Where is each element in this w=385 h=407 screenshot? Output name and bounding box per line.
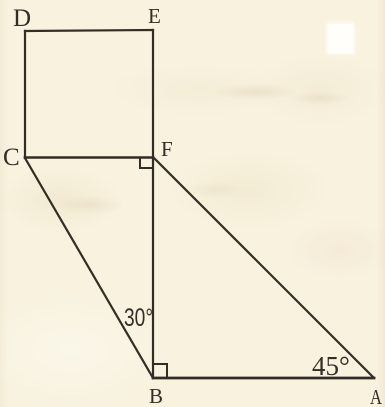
svg-text:E: E: [148, 4, 161, 28]
svg-text:B: B: [149, 384, 163, 407]
white patch: [328, 24, 353, 53]
wire BA: [153, 377, 374, 380]
svg-text:45°: 45°: [312, 351, 350, 381]
right angle at F: [140, 158, 152, 168]
right angle at B: [153, 364, 167, 378]
wire CB: [25, 158, 153, 378]
wire DE (square top edge): [25, 30, 153, 31]
svg-text:30°: 30°: [124, 304, 153, 332]
svg-text:F: F: [161, 137, 173, 161]
wire FA: [153, 157, 374, 378]
wire DC (square left edge): [24, 31, 26, 158]
wire EFB (vertical line): [152, 30, 154, 378]
svg-text:A: A: [370, 385, 383, 407]
svg-text:C: C: [3, 144, 20, 171]
wire CF (square bottom edge): [25, 156, 153, 159]
svg-text:D: D: [13, 5, 31, 32]
